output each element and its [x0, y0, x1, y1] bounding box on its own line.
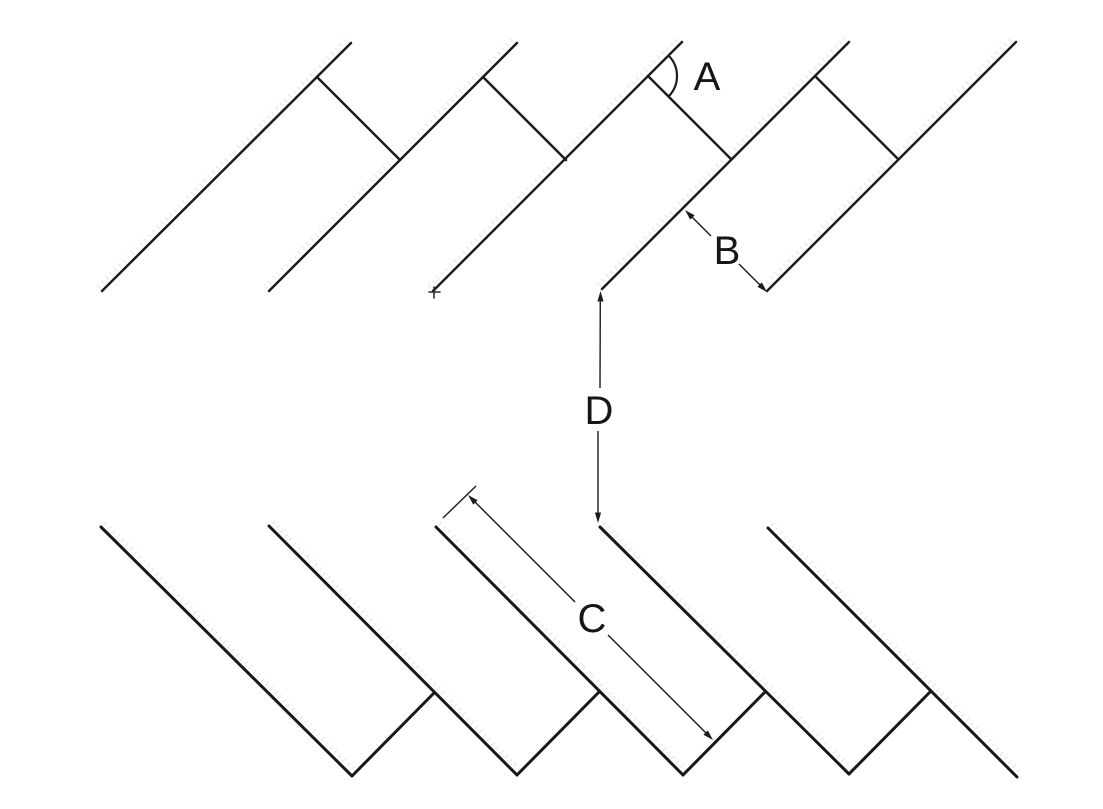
- dimension C upper shaft: [472, 499, 575, 602]
- lower rib line 2: [269, 526, 517, 775]
- dimension B lower shaft: [739, 264, 765, 290]
- lower rib line 1: [101, 527, 352, 776]
- svg-text:C: C: [578, 597, 607, 641]
- dimension D upper arrowhead: [597, 291, 603, 302]
- dimension D lower arrowhead: [595, 513, 601, 524]
- lower connector 1: [352, 693, 434, 776]
- upper connector 1: [317, 77, 400, 160]
- dimension C lower shaft: [608, 635, 707, 734]
- lower connector 3: [683, 692, 765, 775]
- lower connector 2: [517, 692, 599, 775]
- dimension D upper shaft: [599, 296, 601, 388]
- upper rib line 2: [269, 43, 517, 291]
- lower rib line 5: [768, 528, 1017, 777]
- dimension B upper shaft: [687, 212, 711, 236]
- upper rib line 5: [767, 42, 1016, 291]
- upper rib line 4: [602, 42, 849, 289]
- dimension C lower arrowhead: [703, 730, 713, 740]
- dimension C extension tick: [443, 486, 476, 518]
- upper connector 2: [483, 77, 566, 160]
- upper connector 3: [648, 76, 731, 159]
- svg-text:B: B: [714, 229, 741, 273]
- dimension C upper arrowhead: [468, 495, 478, 505]
- lower rib line 4: [600, 527, 849, 774]
- svg-text:A: A: [694, 55, 721, 99]
- lower connector 4: [849, 691, 931, 774]
- svg-text:D: D: [585, 389, 614, 433]
- lower rib line 3: [436, 527, 683, 775]
- angle arc A: [669, 56, 677, 97]
- dimension B lower arrowhead: [757, 282, 767, 292]
- upper rib line 3: [433, 42, 682, 291]
- dimension B upper arrowhead: [685, 210, 695, 220]
- upper connector 4: [815, 76, 898, 159]
- tick artifact at end of upper rib line 3: [429, 287, 440, 298]
- upper rib line 1: [102, 43, 351, 291]
- faint scan speckle along upper ribs: [98, 38, 1021, 773]
- dimension D lower shaft: [597, 431, 599, 518]
